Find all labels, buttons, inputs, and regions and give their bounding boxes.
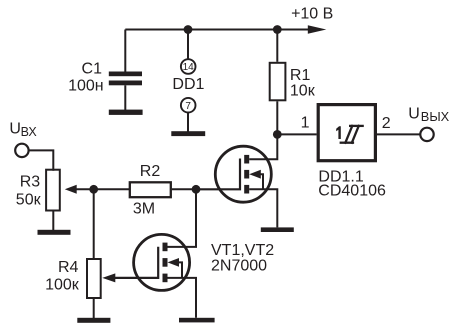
svg-text:C1: C1 bbox=[82, 61, 103, 78]
svg-text:R4: R4 bbox=[58, 259, 79, 276]
svg-text:ВЫХ: ВЫХ bbox=[421, 109, 450, 124]
svg-text:14: 14 bbox=[183, 62, 195, 73]
svg-text:10к: 10к bbox=[290, 82, 316, 99]
svg-text:+10 В: +10 В bbox=[291, 5, 333, 22]
svg-text:2: 2 bbox=[382, 115, 391, 132]
svg-text:CD40106: CD40106 bbox=[318, 182, 386, 199]
svg-text:2N7000: 2N7000 bbox=[211, 258, 267, 275]
svg-text:ВХ: ВХ bbox=[21, 125, 38, 139]
svg-text:R2: R2 bbox=[140, 163, 161, 180]
svg-text:U: U bbox=[9, 121, 21, 138]
svg-text:100н: 100н bbox=[68, 77, 104, 94]
svg-text:50к: 50к bbox=[16, 191, 42, 208]
svg-text:DD1: DD1 bbox=[172, 76, 204, 93]
svg-text:100к: 100к bbox=[45, 277, 80, 294]
svg-text:VT1,VT2: VT1,VT2 bbox=[211, 242, 274, 259]
svg-text:7: 7 bbox=[185, 101, 191, 112]
svg-text:1: 1 bbox=[301, 115, 310, 132]
svg-text:R3: R3 bbox=[20, 173, 41, 190]
svg-text:3М: 3М bbox=[133, 200, 155, 217]
svg-text:U: U bbox=[408, 105, 420, 122]
